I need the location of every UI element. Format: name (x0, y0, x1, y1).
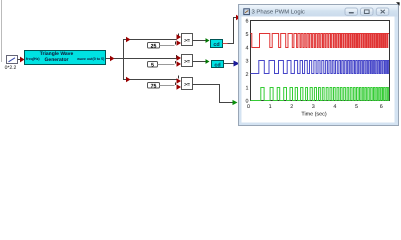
svg-text:cd: cd (213, 42, 219, 48)
scope title bar (240, 5, 398, 17)
wire constant 75 to relational 3 (160, 83, 182, 90)
svg-text:5: 5 (355, 104, 358, 110)
wire converter 1 to scope input 1 (red arrow) (223, 15, 241, 44)
svg-text:25: 25 (151, 43, 157, 49)
distribution wire (vertical) (123, 39, 125, 80)
svg-text:>=: >= (184, 82, 190, 88)
converter block 1 (211, 40, 223, 48)
svg-text:2: 2 (290, 104, 293, 110)
svg-text:3: 3 (246, 59, 249, 65)
wire to relational operator 2 (124, 55, 182, 61)
svg-text:freq(Hz): freq(Hz) (26, 57, 40, 61)
subsystem Triangle Wave Generator (25, 51, 106, 65)
constant 25 (148, 43, 160, 50)
svg-text:wave out(0 to 5): wave out(0 to 5) (76, 57, 105, 61)
svg-text:3: 3 (312, 104, 315, 110)
constant 5 (148, 62, 158, 69)
wire generator to junction (106, 56, 124, 62)
svg-text:0*2.2: 0*2.2 (5, 65, 17, 71)
svg-text:2: 2 (246, 72, 249, 78)
relational operator 1 (>=) (182, 34, 193, 46)
wire constant 5 to relational 2 (158, 61, 182, 67)
svg-text:5: 5 (151, 62, 154, 68)
maximize button (361, 8, 374, 15)
trace red (phase A PWM) (251, 34, 390, 48)
svg-text:Generator: Generator (45, 57, 69, 63)
svg-text:5: 5 (246, 32, 249, 38)
wire to relational operator 1 (123, 34, 181, 43)
scope window icon (244, 9, 250, 15)
cursor triangle (396, 2, 400, 6)
svg-text:0: 0 (247, 104, 250, 110)
svg-text:75: 75 (151, 83, 157, 89)
wire relational 3 to scope input 3 (green arrow) (193, 85, 238, 106)
wire source to generator (18, 57, 25, 63)
svg-text:6: 6 (246, 19, 249, 25)
svg-text:>=: >= (184, 38, 190, 44)
trace green (phase C PWM) (251, 88, 390, 101)
svg-text:6: 6 (380, 104, 383, 110)
x-axis labels (247, 104, 383, 110)
relational operator 2 (>=) (182, 55, 193, 67)
wire to relational operator 3 (123, 76, 181, 84)
svg-text:4: 4 (246, 45, 249, 51)
wire relational 2 to converter 2 (193, 59, 210, 64)
svg-text:Time (sec): Time (sec) (301, 112, 326, 118)
source block freq (ramp icon) (7, 56, 18, 64)
trace blue (phase B PWM) (251, 61, 390, 74)
close button (376, 8, 389, 15)
svg-text:3 Phase PWM Logic: 3 Phase PWM Logic (252, 9, 305, 16)
svg-text:1: 1 (246, 85, 249, 91)
svg-text:>=: >= (184, 59, 190, 65)
plot axes box (251, 21, 390, 101)
svg-text:4: 4 (333, 104, 336, 110)
wire constant 25 to relational 1 (160, 40, 182, 46)
svg-text:1: 1 (269, 104, 272, 110)
wire relational 1 to converter 1 (193, 38, 210, 43)
svg-text:cd: cd (214, 62, 220, 68)
minimize button (345, 8, 358, 15)
constant 75 (148, 83, 160, 90)
converter block 2 (212, 61, 224, 69)
wire converter 2 to scope input 2 (blue arrow) (224, 61, 240, 67)
scope window frame (239, 5, 399, 126)
y-axis labels (246, 19, 249, 105)
relational operator 3 (>=) (182, 78, 193, 90)
